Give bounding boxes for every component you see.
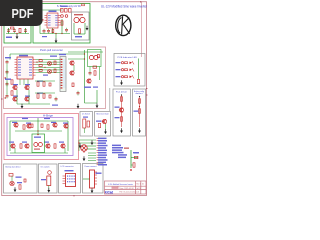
- ground: [86, 26, 89, 31]
- transistor Q19: [48, 70, 52, 74]
- label: [9, 142, 14, 143]
- label: [37, 81, 43, 82]
- capacitor C4: [41, 18, 44, 23]
- wire: [79, 139, 96, 141]
- svg-text:LCD connector: LCD connector: [61, 165, 74, 168]
- wire bus U2 to J1: [36, 60, 61, 73]
- connector J3: [90, 170, 95, 188]
- transformer T1 winding: [80, 17, 85, 22]
- LED row 2: [116, 68, 135, 71]
- module A1 sub-box: [72, 12, 90, 40]
- label: [22, 118, 28, 119]
- ground: [79, 143, 82, 148]
- diode D7: [41, 124, 43, 127]
- transformer T3 box: [32, 134, 45, 153]
- label: [51, 122, 56, 123]
- net label column A: [97, 138, 108, 166]
- transformer T1 winding: [74, 17, 79, 22]
- label: [75, 36, 82, 37]
- capacitor C1: [7, 28, 10, 33]
- wire: [61, 19, 63, 34]
- label: [26, 123, 31, 124]
- wire: [16, 34, 18, 35]
- block: On switch box: [39, 164, 58, 193]
- svg-text:1/1: 1/1: [142, 184, 144, 186]
- wire: [10, 152, 68, 154]
- wire: [73, 23, 75, 34]
- wire: [87, 148, 96, 150]
- capacitor C6: [65, 28, 68, 33]
- label: [44, 118, 50, 119]
- junction: [79, 19, 80, 20]
- transistor Q12: [45, 144, 50, 148]
- label: [34, 137, 41, 138]
- label: [115, 117, 120, 118]
- label: [124, 148, 129, 149]
- resistor R3: [79, 29, 81, 33]
- resistor R27: [97, 55, 99, 58]
- label: [115, 107, 120, 108]
- diode D1: [11, 27, 14, 29]
- wire: [138, 59, 140, 80]
- connector J2: [47, 176, 51, 186]
- label: [133, 152, 139, 153]
- transformer T3 winding: [38, 143, 42, 147]
- label: [13, 84, 18, 85]
- capacitor C5: [35, 18, 38, 23]
- svg-text:Push-pull converter: Push-pull converter: [40, 48, 63, 52]
- capacitor C8: [6, 70, 9, 75]
- IC U2 SG3525: [15, 55, 36, 79]
- ground: [47, 188, 50, 193]
- label: [134, 111, 139, 112]
- wire: [19, 79, 21, 85]
- junction: [16, 33, 17, 34]
- label: [52, 105, 58, 106]
- resistor R8: [37, 94, 39, 98]
- switch SW2: [48, 171, 52, 175]
- label: [65, 170, 74, 171]
- junction: [5, 77, 6, 78]
- net label column B: [112, 145, 127, 159]
- node VCC label: [6, 37, 12, 39]
- wire: [131, 164, 133, 166]
- wire: [9, 54, 11, 60]
- wire: [68, 58, 85, 60]
- label: [59, 142, 64, 143]
- wire: [35, 80, 55, 82]
- transistor Q11: [24, 144, 29, 148]
- diode D12: [39, 69, 42, 71]
- wire: [6, 64, 8, 94]
- label: [63, 123, 68, 124]
- resistor R16: [121, 97, 123, 101]
- transistor Q3: [12, 97, 17, 101]
- wire: [17, 103, 50, 105]
- label: [37, 93, 43, 94]
- resistor R15: [138, 79, 140, 83]
- transformer T2 winding: [94, 55, 98, 59]
- resistor R4: [11, 80, 13, 84]
- wire: [73, 65, 75, 71]
- label: [41, 179, 46, 180]
- resistor R5: [11, 91, 13, 95]
- label: [96, 173, 102, 174]
- label: [34, 149, 40, 150]
- diode D11: [39, 65, 42, 67]
- wire: [87, 145, 96, 147]
- resistor R2: [61, 21, 63, 25]
- capacitor C13: [43, 29, 46, 34]
- label: [74, 14, 83, 15]
- junction: [37, 134, 38, 135]
- ground: [91, 188, 94, 193]
- wire: [121, 95, 123, 128]
- IC U1 regulator: [45, 11, 61, 29]
- wire: [52, 28, 54, 34]
- wire: [85, 102, 98, 104]
- ground: [14, 187, 17, 192]
- LED row 3: [116, 75, 135, 78]
- junction: [139, 96, 140, 97]
- capacitor C11: [89, 71, 92, 76]
- diode D9: [24, 179, 26, 182]
- block: push-pull converter section box: [4, 47, 106, 109]
- transistor Q5: [69, 61, 74, 65]
- wire: [9, 121, 11, 151]
- ground: [138, 128, 141, 133]
- transistor Q17: [10, 181, 14, 185]
- wire: [99, 67, 101, 81]
- resistor R26: [52, 30, 54, 33]
- wire: [130, 150, 132, 168]
- block: DC switch box: [80, 112, 93, 137]
- block: Fan driver box: [113, 89, 131, 136]
- junction: [84, 58, 85, 59]
- label: [16, 177, 22, 178]
- ground: [120, 128, 123, 133]
- diode D4: [49, 95, 51, 98]
- svg-text:MCU invrt fault: MCU invrt fault: [97, 113, 109, 116]
- wire: [131, 157, 138, 159]
- PDF badge: [0, 0, 43, 26]
- junction: [84, 53, 85, 54]
- label: [5, 57, 11, 58]
- svg-text:PCB Indicator LED: PCB Indicator LED: [118, 56, 138, 59]
- junction: [83, 151, 84, 152]
- wire: [16, 90, 18, 105]
- svg-text:Fan driver: Fan driver: [116, 92, 127, 94]
- svg-text:Date: 2021-05-18: Date: 2021-05-18: [120, 187, 134, 190]
- wire: [27, 79, 29, 85]
- LED row 1: [116, 61, 135, 64]
- svg-text:DC Switch: DC Switch: [82, 113, 90, 116]
- ground: [91, 140, 94, 145]
- wire: [23, 79, 25, 85]
- resistor R20: [99, 123, 101, 127]
- block: Battery low detect box: [4, 164, 38, 193]
- wire: [89, 67, 91, 71]
- resistor R1: [19, 28, 21, 32]
- ground: [21, 104, 24, 109]
- svg-text:KiCad: KiCad: [105, 190, 114, 194]
- wire: [28, 90, 30, 105]
- svg-text:U-12v Modified Sine wave Inver: U-12v Modified Sine wave Inverter: [108, 183, 133, 186]
- wire: [74, 33, 85, 35]
- wire: [40, 33, 70, 35]
- junction: [61, 33, 62, 34]
- diode D6: [31, 124, 33, 127]
- label: [84, 87, 91, 88]
- junction: [78, 142, 79, 143]
- diode D10: [39, 60, 42, 62]
- resistor R12: [47, 125, 49, 129]
- junction: [121, 94, 122, 95]
- wire: [79, 142, 96, 144]
- ground: [120, 80, 123, 85]
- transistor Q8: [13, 123, 18, 127]
- transistor Q2: [24, 85, 29, 89]
- label: [134, 152, 139, 153]
- connector J1: [59, 54, 66, 92]
- wire: [55, 34, 57, 39]
- transistor Q21: [63, 124, 68, 128]
- transistor Q4: [24, 97, 29, 101]
- wire: [39, 25, 41, 34]
- ground: [104, 129, 107, 134]
- resistor R10: [94, 71, 96, 75]
- label: [25, 96, 30, 97]
- diode bridge D2: [61, 9, 72, 18]
- border tick marks: [1, 1, 147, 196]
- transistor Q13: [60, 144, 65, 148]
- label: [42, 36, 47, 37]
- wire: [48, 186, 50, 189]
- svg-text:On switch: On switch: [41, 166, 50, 169]
- wire: [37, 118, 39, 135]
- capacitor C2: [13, 28, 16, 33]
- wire: [67, 121, 69, 151]
- svg-text:H-Brige: H-Brige: [43, 114, 53, 118]
- capacitor C14: [47, 29, 50, 34]
- H-Brige inner outline: [7, 118, 73, 156]
- resistor R14: [54, 144, 56, 148]
- label: [44, 142, 49, 143]
- wire: [96, 90, 98, 103]
- svg-text:detect: detect: [136, 92, 144, 95]
- switch SW1: [87, 121, 90, 127]
- wire: [105, 124, 107, 130]
- svg-text:Id 1/1: Id 1/1: [137, 188, 141, 190]
- wire: [35, 92, 55, 94]
- wire: [14, 148, 16, 153]
- capacitor C15: [77, 91, 80, 96]
- wire: [64, 148, 66, 153]
- ground: [77, 104, 80, 109]
- resistor R17: [121, 117, 123, 121]
- label: [96, 121, 102, 122]
- wire: [84, 23, 86, 34]
- resistor R21: [133, 163, 135, 167]
- resistor R19: [139, 109, 141, 113]
- label: [50, 56, 57, 57]
- resistor R23: [19, 185, 21, 189]
- sheet inner border segment: [141, 2, 143, 57]
- svg-text:PDF: PDF: [12, 6, 34, 21]
- junction: [139, 106, 140, 107]
- transistor Q16: [81, 145, 87, 151]
- wire: [88, 157, 96, 159]
- wire: [83, 178, 90, 180]
- sheet border frame: [2, 2, 147, 196]
- block: H-Brige section box: [4, 114, 79, 160]
- wire: [37, 9, 63, 11]
- transformer T2 winding: [89, 55, 93, 59]
- wire: [88, 152, 96, 154]
- wire: [139, 97, 141, 128]
- resistor R24: [54, 61, 56, 65]
- block: PCB Indicator LED box: [114, 54, 145, 87]
- junction: [5, 97, 6, 98]
- wire: [10, 53, 85, 55]
- block: Power connector box: [83, 164, 104, 194]
- wire: [78, 140, 80, 151]
- transistor Q10: [10, 144, 15, 148]
- transformer T2 box: [88, 50, 102, 67]
- transistor Q1: [12, 85, 17, 89]
- block: aux top-left section box: [4, 4, 31, 43]
- transistor Q7: [86, 79, 91, 83]
- junction: [44, 67, 45, 68]
- label: [25, 84, 30, 85]
- capacitor C3: [24, 28, 27, 33]
- label: [43, 75, 48, 76]
- resistor R28: [72, 83, 74, 87]
- svg-text:Rev 1: Rev 1: [137, 184, 141, 186]
- logo LK ellipse: [116, 15, 131, 35]
- svg-text:Power connect: Power connect: [85, 165, 97, 168]
- resistor R22: [9, 174, 13, 177]
- transistor Q6: [69, 71, 74, 75]
- ground: [16, 34, 19, 39]
- ground: [55, 38, 58, 43]
- diode D3: [49, 83, 51, 86]
- label: [17, 182, 22, 183]
- label: [12, 122, 17, 123]
- wire: [11, 176, 13, 181]
- resistor R18: [139, 99, 141, 103]
- resistor R6: [37, 82, 39, 86]
- ground: [83, 156, 86, 161]
- junction: [130, 169, 132, 171]
- transistor Q14: [119, 108, 124, 112]
- title block table: [105, 181, 147, 194]
- LCD module U3: [66, 174, 76, 187]
- label: [93, 87, 98, 88]
- block: MCU fault box: [95, 112, 111, 137]
- label: [83, 117, 88, 118]
- wire: [36, 10, 38, 17]
- label: [5, 79, 11, 80]
- wire: [84, 50, 86, 103]
- label: [22, 142, 27, 143]
- junction: [37, 130, 38, 131]
- wire: [10, 120, 68, 122]
- ground: [96, 103, 99, 108]
- transistor Q20: [26, 124, 31, 128]
- junction: [36, 62, 37, 63]
- transistor Q9: [52, 123, 57, 127]
- resistor R11: [23, 125, 25, 129]
- transformer T3 winding: [34, 143, 38, 147]
- junction: [55, 33, 56, 34]
- block: LCD connector box: [59, 164, 81, 194]
- relay K1: [83, 119, 86, 128]
- resistor R25: [54, 69, 56, 73]
- resistor R13: [20, 144, 22, 148]
- resistor R9: [43, 94, 45, 98]
- pin stubs: [63, 176, 66, 184]
- capacitor C10: [6, 94, 9, 99]
- bus line: [109, 88, 111, 111]
- transistor Q15: [102, 119, 107, 123]
- label: [13, 96, 18, 97]
- label: [61, 6, 68, 7]
- svg-text:Battery low detect: Battery low detect: [6, 166, 21, 169]
- block: 5v power supply section box: [33, 4, 90, 44]
- wire: [15, 130, 62, 132]
- wire: [6, 33, 29, 35]
- wire: [25, 28, 27, 34]
- wire: [83, 128, 85, 133]
- wire: [88, 155, 96, 157]
- capacitor C7: [6, 60, 9, 65]
- diode D8: [135, 156, 138, 158]
- capacitor C12: [55, 97, 58, 102]
- svg-text:File: UL-12v-inverter.sch: File: UL-12v-inverter.sch: [120, 191, 139, 194]
- wire: [8, 28, 10, 34]
- label marker: [82, 4, 85, 6]
- transistor Q18: [48, 62, 52, 66]
- wire: [68, 51, 103, 53]
- wire: [88, 160, 96, 162]
- diode D5: [93, 66, 97, 68]
- capacitor C9: [6, 82, 9, 87]
- block: Battery voltage detect box: [133, 89, 146, 136]
- svg-text:UL-12V Modified Sine wave Inve: UL-12V Modified Sine wave Inverter: [101, 5, 148, 9]
- resistor R7: [43, 82, 45, 86]
